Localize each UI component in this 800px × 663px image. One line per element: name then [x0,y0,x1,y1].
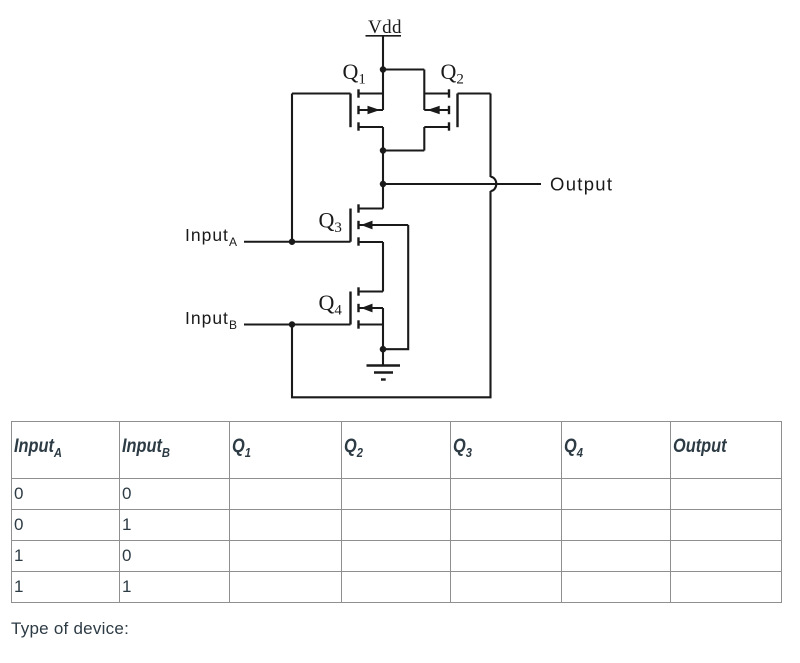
svg-text:Q2: Q2 [441,59,464,88]
wire InputA to Q3 gate [244,241,351,243]
node InputB junction [289,321,296,328]
svg-text:InputB: InputB [185,308,238,332]
wire drain join horizontal [383,149,424,151]
wire Q2 drain down [423,127,425,151]
wire Q2 source/bulk vertical [423,70,425,111]
wire left rail InputA to Q1 gate [291,94,293,242]
node InputA junction [289,239,296,246]
wire Vdd node to Q2 source [383,68,424,70]
wire right rail up to Q2 gate [489,94,491,178]
wire Q3 bulk rail down [383,225,408,349]
svg-text:Q4: Q4 [319,290,343,319]
node output junction [380,181,387,188]
wire hop over output line [491,177,497,191]
ground [367,366,401,380]
svg-text:Q3: Q3 [319,208,342,237]
transistor Q2 (PMOS) [424,89,457,130]
wire Q1 source/bulk vertical [382,70,384,111]
wire bottom loop InputB to right rail [292,191,491,397]
node drain junction [380,147,387,154]
wire output line [383,183,541,185]
wire Q3 source to Q4 drain [382,242,384,292]
node Vdd junction [380,66,387,73]
wire Q2 gate lead [458,92,491,94]
wire drain node to output node [382,151,384,185]
transistor Q3 (NMOS) [351,204,409,245]
wire Q4 source/bulk to ground node [382,308,384,349]
svg-text:Output: Output [550,173,613,194]
node ground junction [380,346,387,353]
label Vdd [366,17,403,38]
svg-text:InputA: InputA [185,225,238,249]
wire ground stub [382,349,384,365]
svg-text:Vdd: Vdd [368,17,402,38]
transistor Q4 (NMOS) [351,287,384,328]
truth table [11,421,782,603]
wire Q1 drain down [382,127,384,151]
svg-text:Q1: Q1 [343,59,366,88]
transistor Q1 (PMOS) [351,89,384,130]
wire Q1 gate lead [292,92,351,94]
wire output node to Q3 drain [382,184,384,209]
wire InputB to Q4 gate [244,323,351,325]
wire Vdd stub [382,36,384,70]
